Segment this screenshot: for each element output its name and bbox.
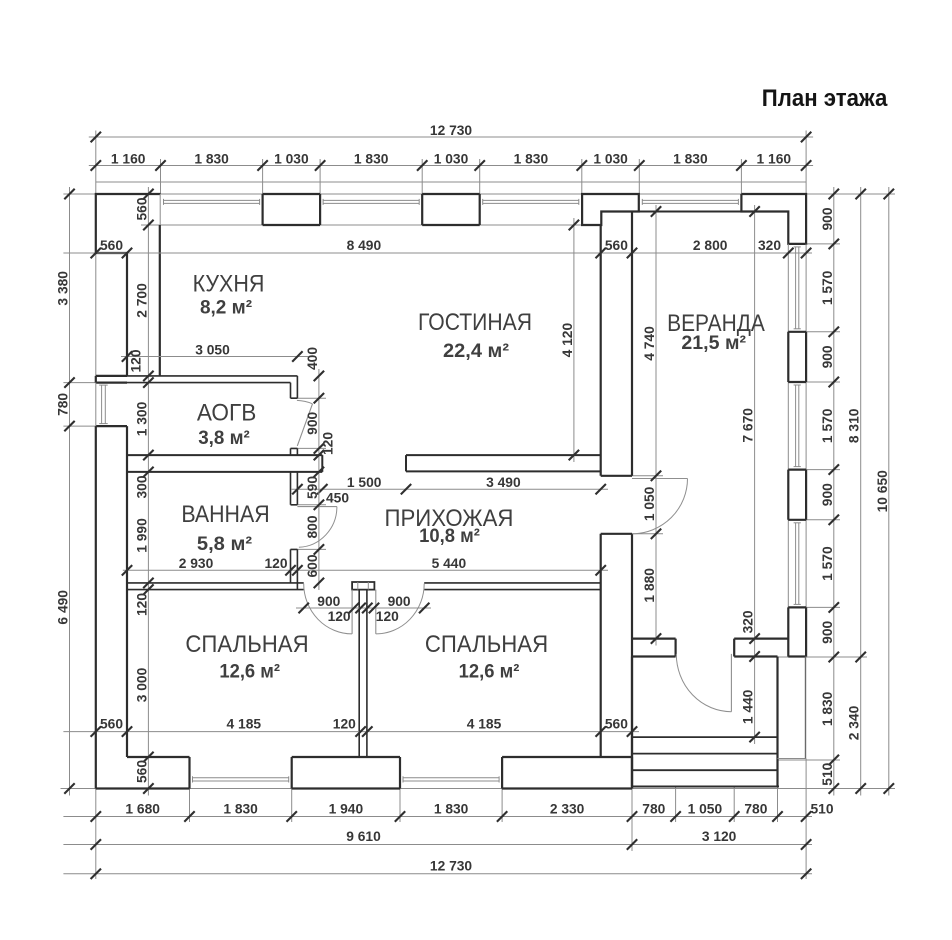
dimension 7670-320-1440 column: [741, 205, 760, 744]
svg-text:1 570: 1 570: [820, 270, 835, 305]
svg-text:320: 320: [758, 238, 781, 253]
AOGV right partition upper: [291, 376, 298, 398]
svg-text:120: 120: [333, 717, 356, 732]
svg-text:КУХНЯ: КУХНЯ: [193, 271, 265, 298]
dimension row 560-4185-120-4185-560: [63, 717, 639, 737]
corner block bottom right: [778, 657, 806, 787]
svg-text:ВАННАЯ: ВАННАЯ: [181, 501, 269, 528]
svg-text:АОГВ: АОГВ: [197, 400, 257, 427]
svg-text:12,6 м²: 12,6 м²: [219, 660, 280, 682]
svg-text:120: 120: [264, 556, 287, 571]
extension at y225 left: [141, 224, 159, 226]
svg-text:120: 120: [134, 593, 149, 616]
prihozhaya-bedroom2 wall: [424, 583, 601, 590]
svg-text:600: 600: [305, 554, 320, 577]
svg-text:510: 510: [820, 762, 835, 785]
wall left outer below window: [95, 426, 97, 788]
svg-text:1 880: 1 880: [642, 568, 657, 603]
window V1 right glazing: [794, 247, 801, 329]
svg-text:800: 800: [305, 515, 320, 538]
label ГОСТИНАЯ area: [443, 340, 510, 362]
dimension right column 10 650: [875, 187, 894, 796]
svg-text:1 300: 1 300: [134, 401, 149, 436]
svg-text:СПАЛЬНАЯ: СПАЛЬНАЯ: [425, 631, 548, 658]
wall left kitchen-level inner: [159, 225, 161, 376]
svg-text:2 700: 2 700: [134, 283, 149, 318]
svg-text:1 830: 1 830: [194, 151, 229, 166]
svg-text:320: 320: [741, 610, 756, 633]
svg-text:560: 560: [605, 238, 628, 253]
dimension row 2930-120-5440: [122, 556, 608, 576]
label КУХНЯ area: [200, 297, 253, 319]
label ВАННАЯ area: [197, 533, 253, 555]
pier top wall 1: [263, 194, 321, 225]
svg-text:560: 560: [100, 717, 123, 732]
extension bottom-right vertical: [805, 759, 807, 880]
svg-text:560: 560: [134, 760, 149, 783]
svg-text:1 570: 1 570: [820, 546, 835, 581]
svg-text:1 500: 1 500: [347, 475, 382, 490]
wall top-left corner pier: [96, 194, 161, 253]
svg-text:3 120: 3 120: [702, 829, 737, 844]
svg-text:1 830: 1 830: [514, 151, 549, 166]
wall left inner below window: [126, 426, 128, 757]
wall left kitchen-level outer: [126, 253, 128, 376]
svg-text:1 030: 1 030: [593, 151, 628, 166]
porch steps: [632, 657, 779, 787]
svg-text:4 185: 4 185: [467, 717, 502, 732]
wall gostinaya-veranda right face: [631, 212, 633, 657]
window B1 bottom glazing: [193, 776, 289, 782]
svg-text:1 830: 1 830: [354, 151, 389, 166]
wall left step at AOGV: [96, 375, 127, 377]
window W3 top glazing: [483, 199, 579, 205]
svg-text:2 330: 2 330: [550, 801, 585, 816]
door veranda leaf and arc: [632, 479, 688, 534]
svg-text:1 830: 1 830: [820, 691, 835, 726]
wall below veranda bottom left: [601, 657, 632, 789]
svg-text:ГОСТИНАЯ: ГОСТИНАЯ: [418, 309, 532, 336]
svg-text:590: 590: [305, 476, 320, 499]
dimension bottom row B: [63, 829, 812, 850]
door entrance leaf and arc: [676, 654, 731, 712]
window W5 left wall glazing: [96, 383, 108, 427]
label ГОСТИНАЯ: [418, 309, 532, 336]
window V3 right glazing: [794, 523, 801, 605]
svg-text:8,2 м²: 8,2 м²: [200, 297, 253, 319]
svg-text:План этажа: План этажа: [762, 86, 888, 112]
label СПАЛЬНАЯ left area: [219, 660, 280, 682]
svg-text:560: 560: [100, 238, 123, 253]
extension veranda door to dim L656: [632, 476, 663, 534]
svg-text:900: 900: [820, 207, 835, 230]
label ВАННАЯ: [181, 501, 269, 528]
dimension row 450-1500-3490: [291, 475, 608, 506]
bedroom doors jamb box: [352, 582, 374, 590]
svg-text:3 050: 3 050: [195, 342, 230, 357]
title План этажа: [762, 86, 888, 112]
label КУХНЯ: [193, 271, 265, 298]
svg-text:2 930: 2 930: [179, 556, 214, 571]
svg-text:3 490: 3 490: [486, 475, 521, 490]
extension window jambs to dim row2: [161, 159, 742, 194]
veranda right wall faces: [788, 244, 806, 657]
svg-text:12 730: 12 730: [430, 858, 473, 873]
svg-text:1 830: 1 830: [223, 801, 258, 816]
svg-text:1 160: 1 160: [111, 151, 146, 166]
veranda bottom wall: [632, 639, 788, 657]
svg-text:4 185: 4 185: [227, 717, 262, 732]
wall inner face top (thin): [159, 224, 601, 226]
gostinaya-prihozhaya partition: [406, 455, 601, 471]
pier right wall 1: [788, 332, 806, 382]
door bedroom2 leaf and arc: [376, 584, 424, 634]
pier top wall 3 stepped: [582, 194, 639, 225]
svg-text:СПАЛЬНАЯ: СПАЛЬНАЯ: [185, 631, 308, 658]
dimension row bedroom doors: [296, 594, 431, 624]
window B2 bottom glazing: [403, 776, 499, 782]
veranda door opening caps: [601, 476, 632, 534]
svg-text:21,5 м²: 21,5 м²: [681, 332, 746, 354]
svg-text:10,8 м²: 10,8 м²: [419, 525, 480, 547]
svg-text:900: 900: [820, 345, 835, 368]
svg-text:780: 780: [744, 801, 767, 816]
label ПРИХОЖАЯ area: [419, 525, 480, 547]
label АОГВ: [197, 400, 257, 427]
window W2 top glazing: [323, 199, 419, 205]
dimension left column 3380-780-6490: [56, 187, 75, 796]
wall gostinaya-veranda left face: [600, 225, 602, 757]
svg-text:12 730: 12 730: [430, 123, 473, 138]
svg-text:1 030: 1 030: [274, 151, 309, 166]
dimension AOGV-bath door column: [305, 347, 336, 590]
label СПАЛЬНАЯ right: [425, 631, 548, 658]
dimension right column 8310-2340: [847, 187, 866, 796]
svg-text:900: 900: [388, 594, 411, 609]
veranda top wall inner face: [632, 211, 788, 213]
dimension row 560-8490-560-2800-320: [63, 238, 812, 258]
AOGV-bathroom wall: [127, 455, 322, 472]
svg-text:120: 120: [321, 432, 336, 455]
svg-text:120: 120: [376, 609, 399, 624]
pier top wall 2: [422, 194, 480, 225]
svg-text:1 050: 1 050: [642, 486, 657, 521]
dimension right column segments: [820, 187, 839, 796]
bedroom partition wall: [359, 590, 367, 757]
wall left outer above window: [95, 376, 97, 383]
svg-text:10 650: 10 650: [875, 470, 890, 513]
extension left wall window top: [63, 382, 95, 384]
dimension 4740-1050-1880 column: [642, 205, 661, 646]
extension line top outer face: [63, 193, 895, 195]
window left jamb top: [96, 382, 127, 384]
label СПАЛЬНАЯ right area: [459, 660, 520, 682]
extension porch bottom verticals: [632, 787, 778, 852]
svg-text:1 160: 1 160: [757, 151, 792, 166]
offset contour line above top wall: [96, 181, 806, 183]
extension top-left vertical: [95, 131, 97, 195]
window V2 right glazing: [794, 385, 801, 467]
svg-text:510: 510: [810, 801, 833, 816]
svg-text:2 340: 2 340: [847, 705, 862, 740]
dimension 3 050 row: [121, 342, 308, 361]
extension line bottom outer face: [61, 788, 896, 790]
window W4 top glazing: [642, 199, 738, 205]
svg-text:5 440: 5 440: [432, 556, 467, 571]
svg-text:780: 780: [56, 393, 71, 416]
svg-text:1 830: 1 830: [434, 801, 469, 816]
svg-text:1 940: 1 940: [329, 801, 364, 816]
svg-text:22,4 м²: 22,4 м²: [443, 340, 510, 362]
svg-text:300: 300: [134, 475, 149, 498]
extension aogv wall to dim L319: [297, 398, 326, 549]
dimension 4 120: [560, 218, 579, 462]
svg-text:1 680: 1 680: [125, 801, 160, 816]
svg-text:1 440: 1 440: [741, 689, 756, 724]
svg-text:900: 900: [820, 620, 835, 643]
pier right wall 3: [788, 607, 806, 656]
bathroom right partition lower: [291, 549, 298, 589]
extension bottom-left vertical: [95, 253, 97, 879]
label ВЕРАНДА: [667, 310, 765, 337]
svg-text:4 120: 4 120: [560, 323, 575, 358]
svg-text:1 050: 1 050: [688, 801, 723, 816]
svg-text:1 830: 1 830: [673, 151, 708, 166]
dimension bottom row A: [63, 801, 833, 821]
bathroom-bedroom partition: [127, 583, 304, 590]
svg-text:7 670: 7 670: [741, 408, 756, 443]
svg-text:120: 120: [328, 609, 351, 624]
svg-text:560: 560: [134, 197, 149, 220]
svg-text:560: 560: [605, 717, 628, 732]
door bedroom1 leaf and arc: [304, 584, 352, 634]
svg-text:900: 900: [820, 483, 835, 506]
svg-text:8 310: 8 310: [847, 408, 862, 443]
window left jamb bottom: [96, 425, 127, 427]
svg-text:1 990: 1 990: [134, 518, 149, 553]
bottom pier middle: [292, 757, 400, 789]
label ВЕРАНДА area: [681, 332, 746, 354]
svg-text:3 380: 3 380: [56, 271, 71, 306]
dimension 12 730 top: [89, 123, 813, 142]
svg-text:450: 450: [326, 491, 349, 506]
svg-text:2 800: 2 800: [693, 238, 728, 253]
svg-text:780: 780: [642, 801, 665, 816]
pier right wall 2: [788, 470, 806, 520]
svg-text:120: 120: [129, 349, 144, 372]
svg-text:1 030: 1 030: [434, 151, 469, 166]
svg-text:12,6 м²: 12,6 м²: [459, 660, 520, 682]
pier top-right corner L-shape: [741, 194, 806, 244]
bottom outer face left pier: [96, 787, 190, 789]
dimension top row segments: [89, 151, 813, 170]
svg-text:900: 900: [317, 594, 340, 609]
extension top-right vertical: [805, 131, 807, 195]
svg-text:4 740: 4 740: [642, 326, 657, 361]
bathroom right partition upper: [291, 472, 298, 505]
window W1 top glazing: [164, 199, 260, 205]
svg-text:3,8 м²: 3,8 м²: [198, 427, 250, 449]
label АОГВ area: [198, 427, 250, 449]
AOGV right partition lower: [291, 448, 298, 455]
dimension bottom row C: [63, 858, 812, 879]
extension bottom window jambs: [190, 789, 503, 823]
svg-text:9 610: 9 610: [346, 829, 381, 844]
label ПРИХОЖАЯ: [385, 505, 514, 532]
label СПАЛЬНАЯ left: [185, 631, 308, 658]
dimension inner left column: [129, 187, 154, 796]
svg-text:5,8 м²: 5,8 м²: [197, 533, 253, 555]
svg-text:400: 400: [305, 347, 320, 370]
svg-text:900: 900: [305, 411, 320, 434]
kitchen-AOGV partition: [127, 376, 297, 383]
extension left wall window bottom: [63, 425, 95, 427]
svg-text:6 490: 6 490: [56, 590, 71, 625]
extension right side ticks: [778, 244, 868, 760]
svg-text:3 000: 3 000: [134, 667, 149, 702]
bottom pier right: [502, 757, 632, 789]
svg-text:8 490: 8 490: [347, 238, 382, 253]
door bathroom leaf and arc: [297, 507, 337, 548]
door AOGV leaf and arc: [297, 400, 313, 446]
svg-text:1 570: 1 570: [820, 408, 835, 443]
bedroom1 bottom inner face: [127, 757, 190, 789]
